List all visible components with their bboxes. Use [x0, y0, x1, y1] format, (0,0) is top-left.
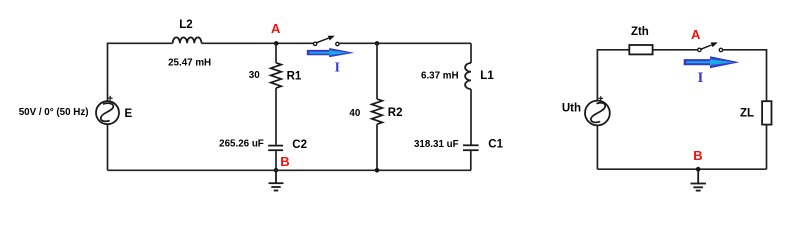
- capacitor C1: [463, 145, 479, 170]
- svg-text:L2: L2: [179, 19, 192, 31]
- voltage source E: [96, 96, 119, 124]
- voltage source Uth: [585, 96, 610, 125]
- wire: top, switch to ZL: [723, 50, 767, 101]
- svg-text:I: I: [335, 60, 340, 75]
- inductor L2: [173, 37, 202, 43]
- svg-text:B: B: [280, 154, 289, 169]
- wire: top, switch to right branch: [339, 42, 471, 44]
- svg-text:R1: R1: [287, 70, 302, 82]
- svg-text:50V / 0° (50 Hz): 50V / 0° (50 Hz): [19, 107, 89, 118]
- impedance Zth (box): [629, 45, 652, 54]
- resistor R2: [372, 41, 383, 173]
- inductor L1: [465, 43, 471, 144]
- capacitor C2: [268, 146, 283, 171]
- node B (junction): [274, 168, 279, 173]
- svg-text:R2: R2: [388, 107, 403, 119]
- current arrow I (right): [684, 56, 740, 68]
- svg-text:A: A: [691, 27, 701, 42]
- wire: top, Zth to switch: [653, 49, 698, 51]
- svg-text:A: A: [271, 21, 281, 36]
- current arrow I (left): [307, 48, 355, 57]
- wire: left vertical (source branch): [108, 43, 173, 170]
- wire: left vertical (Uth branch): [597, 50, 628, 169]
- svg-text:I: I: [698, 70, 704, 86]
- wire: top, L2 to switch: [202, 42, 314, 44]
- node B (junction, right circuit): [696, 167, 701, 172]
- wire: bottom rail: [108, 169, 472, 171]
- ground (left circuit): [269, 170, 284, 190]
- node A (junction): [274, 41, 279, 46]
- resistor R1: [271, 43, 282, 145]
- svg-text:L1: L1: [480, 70, 494, 82]
- svg-text:6.37 mH: 6.37 mH: [421, 70, 459, 81]
- svg-text:318.31 uF: 318.31 uF: [414, 139, 459, 150]
- svg-text:25.47 mH: 25.47 mH: [168, 57, 211, 68]
- svg-text:40: 40: [349, 108, 360, 119]
- svg-text:Uth: Uth: [562, 102, 581, 114]
- svg-text:B: B: [693, 148, 702, 163]
- svg-text:ZL: ZL: [740, 108, 754, 120]
- ground (right circuit): [691, 169, 706, 190]
- svg-text:C1: C1: [488, 139, 503, 151]
- svg-text:30: 30: [249, 70, 260, 81]
- svg-text:E: E: [125, 108, 133, 120]
- switch S1: [313, 36, 339, 46]
- switch S2: [698, 42, 723, 51]
- wire: bottom rail (right circuit): [597, 168, 766, 170]
- svg-text:265.26 uF: 265.26 uF: [219, 139, 264, 150]
- svg-text:Zth: Zth: [631, 26, 649, 38]
- svg-text:C2: C2: [292, 139, 307, 151]
- impedance ZL (box): [762, 101, 771, 169]
